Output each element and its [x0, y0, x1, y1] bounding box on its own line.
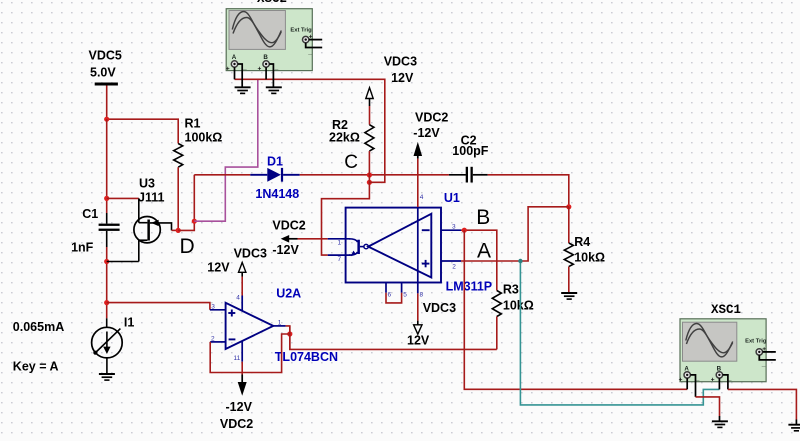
wire VDC3 to R2	[369, 106, 371, 125]
svg-text:R3: R3	[503, 283, 519, 297]
wire node D to D1 anode riser	[178, 175, 194, 231]
wire U2A pin11 to VDC2	[241, 362, 243, 375]
svg-text:VDC5: VDC5	[89, 48, 122, 62]
node C junctions	[367, 172, 372, 177]
svg-text:6: 6	[388, 292, 392, 299]
svg-text:A: A	[232, 54, 237, 61]
wire current source I1 top	[106, 303, 108, 319]
node junction R4	[566, 204, 571, 209]
wire R2 bottom to node C	[368, 151, 370, 182]
op-amp comparator U1 LM311P	[328, 191, 492, 299]
wire node C to scope XSC2 B	[235, 79, 385, 182]
wire I1 node to U2A pin3	[107, 303, 210, 310]
resistor R2	[329, 118, 374, 151]
node D junction	[176, 228, 181, 233]
svg-text:-12V: -12V	[226, 400, 253, 414]
svg-text:D: D	[180, 235, 195, 258]
wire VDC2 arrow to U1 pin1	[298, 238, 328, 240]
svg-text:12V: 12V	[207, 260, 230, 274]
svg-text:+: +	[226, 66, 230, 73]
ground under I1	[99, 358, 115, 380]
wire R4 node to node A riser	[461, 207, 569, 261]
wire XSC1 B- down	[723, 375, 728, 390]
resistor R4	[564, 207, 605, 293]
power arrow VDC3 at R2	[366, 55, 417, 106]
wire XSC1 B+ down	[718, 378, 720, 389]
wire XSC1 B- to corner ground (red)	[728, 389, 797, 419]
wire VDC2 arrow to U1 pin4	[417, 159, 419, 207]
svg-text:5: 5	[403, 292, 407, 299]
wire node C to U1 pin7	[322, 182, 370, 255]
svg-text:B: B	[476, 206, 490, 229]
wire C1 bottom junction	[106, 247, 108, 303]
power arrow VDC2 above U1	[413, 111, 448, 159]
node junction C1 top / JFET drain	[104, 196, 109, 201]
wire XSC1 A- down	[690, 375, 695, 397]
svg-text:1: 1	[278, 319, 282, 326]
node junction U2A output	[287, 331, 292, 336]
wire XSC2 A+ down	[234, 67, 236, 79]
svg-text:LM311P: LM311P	[446, 279, 493, 293]
svg-text:1N4148: 1N4148	[255, 187, 299, 201]
node junction purple tap	[192, 219, 197, 224]
svg-text:B: B	[263, 54, 268, 61]
power arrow VDC2 at U1 pin1	[272, 218, 305, 256]
svg-text:3: 3	[211, 303, 215, 310]
svg-text:-12V: -12V	[272, 243, 299, 257]
svg-text:R1: R1	[185, 117, 201, 131]
power arrow VDC3 above U2A	[207, 246, 267, 276]
svg-text:2: 2	[452, 264, 456, 271]
svg-text:12V: 12V	[391, 71, 414, 85]
svg-text:+: +	[258, 66, 262, 73]
ground under XSC2 A	[235, 87, 251, 93]
svg-text:5.0V: 5.0V	[90, 66, 116, 80]
svg-text:Ext Trig: Ext Trig	[290, 28, 312, 34]
ground corner XSC1	[788, 420, 800, 431]
current source I1	[13, 316, 135, 374]
svg-text:_: _	[307, 49, 312, 56]
svg-text:11: 11	[234, 355, 241, 362]
svg-text:4: 4	[236, 295, 240, 302]
wire teal node A to XSC1 B	[520, 261, 719, 405]
wire XSC2 B- to ground	[269, 64, 273, 87]
power arrow VDC2 below U2A	[220, 375, 253, 432]
svg-text:VDC2: VDC2	[220, 417, 253, 431]
power source VDC5	[89, 48, 122, 85]
svg-text:TL074BCN: TL074BCN	[275, 350, 338, 364]
svg-text:4: 4	[420, 194, 424, 201]
wire C2 to R4 top	[488, 175, 569, 207]
svg-text:2: 2	[211, 335, 215, 342]
wire VDC5 stem	[106, 86, 108, 120]
svg-text:C: C	[344, 152, 358, 173]
wire R1 bottom to node D	[177, 167, 179, 230]
svg-text:J111: J111	[138, 190, 164, 204]
svg-text:+: +	[679, 377, 683, 384]
wire U2A output	[286, 326, 290, 350]
oscilloscope XSC1	[679, 303, 776, 383]
op-amp U2A TL074BCN	[210, 287, 338, 364]
wire U1 balance pins 5-6	[386, 293, 402, 303]
wire node B down to XSC1 A	[464, 230, 687, 389]
wire VDC5 node to R1 top	[107, 119, 179, 143]
wire XSC2 B+ down	[265, 67, 267, 79]
wire node D to diode D1	[194, 174, 250, 176]
ground mid XSC1	[712, 416, 728, 427]
svg-text:VDC2: VDC2	[415, 111, 448, 125]
svg-text:10kΩ: 10kΩ	[574, 250, 605, 264]
svg-text:VDC3: VDC3	[384, 55, 417, 69]
wire JFET gate to node D	[172, 229, 179, 231]
wire VDC3 to U2A pin4	[241, 277, 243, 296]
svg-text:VDC3: VDC3	[234, 246, 267, 260]
resistor R1	[174, 117, 223, 167]
svg-text:XSC1: XSC1	[711, 303, 741, 317]
svg-text:1nF: 1nF	[71, 240, 94, 254]
capacitor C1	[71, 207, 120, 254]
node B wiring pin3 to R3	[461, 230, 497, 290]
svg-text:7: 7	[338, 256, 342, 263]
capacitor C2	[449, 133, 489, 182]
wire JFET source to C1 bottom	[107, 261, 139, 263]
node junction at VDC5/R1	[104, 117, 109, 122]
oscilloscope XSC2	[226, 0, 322, 73]
svg-text:XSC2: XSC2	[257, 0, 287, 6]
svg-text:U1: U1	[444, 191, 460, 205]
svg-text:10kΩ: 10kΩ	[503, 299, 534, 313]
svg-text:8: 8	[420, 292, 424, 299]
svg-text:Key = A: Key = A	[13, 359, 59, 373]
svg-text:100pF: 100pF	[452, 144, 488, 158]
svg-text:A: A	[477, 239, 491, 262]
wire XSC1 A- to ground (red)	[696, 397, 720, 416]
transistor U3 J111 JFET	[134, 177, 172, 262]
ground under R4	[561, 293, 577, 299]
wire U1 pin8 to VDC3	[417, 293, 419, 320]
wire purple to scope XSC2 A	[194, 79, 257, 221]
svg-text:VDC3: VDC3	[423, 301, 456, 315]
svg-text:+: +	[711, 377, 715, 384]
svg-text:_: _	[274, 64, 279, 71]
svg-text:-12V: -12V	[413, 126, 440, 140]
svg-text:0.065mA: 0.065mA	[13, 320, 64, 334]
wire VDC5 down to C1	[106, 119, 108, 213]
wire U2A feedback to pin2	[210, 334, 290, 373]
svg-text:R4: R4	[574, 235, 590, 249]
power arrow VDC3 below U1	[407, 301, 456, 348]
diode D1 1N4148	[250, 155, 299, 201]
wire XSC1 A+ down	[686, 378, 688, 389]
wire R3 bottom to U2A output	[290, 326, 497, 350]
svg-text:22kΩ: 22kΩ	[329, 131, 360, 145]
wire JFET drain	[107, 197, 139, 199]
svg-text:Ext Trig: Ext Trig	[745, 339, 767, 345]
svg-text:100kΩ: 100kΩ	[185, 130, 223, 144]
svg-text:1: 1	[338, 240, 342, 247]
wire D1 cathode to node C and C2	[300, 174, 449, 176]
ground under XSC2 B	[266, 87, 282, 93]
svg-text:C1: C1	[82, 207, 98, 221]
wire XSC2 A- to ground	[238, 64, 243, 87]
svg-text:D1: D1	[267, 155, 283, 169]
resistor R3	[492, 283, 533, 350]
svg-text:U3: U3	[139, 177, 155, 191]
svg-text:3: 3	[452, 224, 456, 231]
svg-text:VDC2: VDC2	[272, 218, 305, 232]
svg-text:12V: 12V	[407, 333, 430, 347]
svg-text:U2A: U2A	[276, 287, 301, 301]
svg-text:_: _	[761, 361, 766, 368]
svg-text:I1: I1	[124, 316, 134, 330]
